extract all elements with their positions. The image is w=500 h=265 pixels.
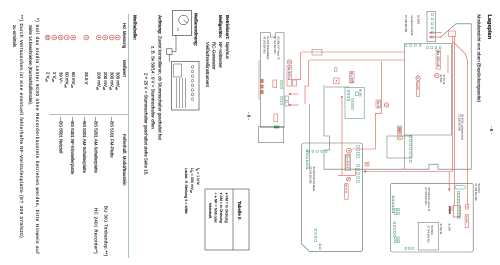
meas circle 2 + designator — [416, 76, 420, 80]
pin rows inside B5 — [281, 81, 283, 83]
svg-text:RC-Generator: RC-Generator — [212, 42, 217, 70]
red box mid small — [334, 78, 339, 84]
svg-text:Sv 9: Sv 9 — [376, 101, 380, 108]
tiny mark — [334, 68, 337, 71]
svg-text:ET 308 310 095: ET 308 310 095 — [474, 184, 477, 202]
svg-text:zu ermitteln.: zu ermitteln. — [12, 25, 17, 48]
svg-text:Bu 504: Bu 504 — [448, 224, 451, 232]
red cluster B3 mid: circle + boxed designator — [347, 148, 352, 153]
svg-text:1: 1 — [435, 75, 439, 77]
svg-text:2 Veff: 2 Veff — [51, 72, 57, 82]
chassis outline — [324, 24, 471, 169]
red designator above B5 — [287, 66, 292, 86]
inner block BS 5503 — [418, 223, 438, 251]
svg-text:Bu 301: Bu 301 — [359, 89, 362, 97]
svg-text:10: 10 — [46, 36, 50, 40]
pin rows B3 bottom — [306, 150, 308, 152]
red text marks below B5 — [261, 79, 264, 83]
svg-text:Achtung:: Achtung: — [158, 15, 163, 35]
svg-text:—BS 5101 FM-Platte: —BS 5101 FM-Platte — [109, 117, 114, 158]
svg-text:**) Durch Vertauschen ist eine: **) Durch Vertauschen ist eine eventuell… — [19, 15, 24, 238]
svg-text:Betriebsart:: Betriebsart: — [225, 15, 230, 40]
black link lines — [309, 104, 311, 170]
svg-text:Hd. Messung: Hd. Messung — [122, 23, 127, 49]
cable — [172, 35, 176, 51]
svg-text:BS 5901: BS 5901 — [417, 15, 420, 25]
svg-text:2 + 25 V = Stummschalter gesch: 2 + 25 V = Stummschalter geschaltet sieh… — [144, 73, 149, 175]
connector left of pin row — [455, 186, 466, 190]
svg-text:1: 1 — [116, 37, 120, 39]
meas circle 9 — [287, 60, 291, 64]
svg-text:Meßwert: Meßwert — [122, 60, 127, 78]
red designator at W3 jog — [376, 100, 381, 108]
table rows: circles and values — [115, 35, 120, 40]
red designator top-left — [436, 50, 441, 69]
pins row above inner board — [410, 136, 412, 138]
svg-text:Sv 504-11: Sv 504-11 — [439, 224, 442, 235]
svg-text:2: 2 — [416, 77, 420, 79]
wire B3 inner corner — [338, 168, 356, 175]
svg-text:*) Soll das studio center 5030: *) Soll das studio center 5030 ohne Reco… — [35, 18, 40, 254]
svg-text:39 V~: 39 V~ — [59, 72, 64, 84]
pin column B3 left — [325, 151, 327, 153]
svg-text:200 mVeff: 200 mVeff — [96, 72, 102, 90]
svg-text:Seite 14 beschrieben (Kurzschl: Seite 14 beschrieben (Kurzschlußbrücke). — [28, 25, 33, 105]
board BS 5461 NF-Endstufe (top right) — [391, 183, 474, 252]
svg-text:—BS 5301 NF-Einstellerplatte: —BS 5301 NF-Einstellerplatte — [70, 117, 75, 175]
red designators in B5 — [273, 80, 277, 88]
svg-text:Sv 50/8: Sv 50/8 — [416, 82, 418, 90]
svg-text:Lautst. ≙ Stellung 4 = Mitte: Lautst. ≙ Stellung 4 = Mitte — [184, 168, 188, 214]
svg-text:26.5 V: 26.5 V — [84, 72, 89, 85]
svg-text:—BS 5201 AM-Schalterplatte: —BS 5201 AM-Schalterplatte — [82, 117, 87, 173]
pin row B1 top — [457, 192, 460, 194]
wire spur into B1 — [448, 172, 450, 190]
svg-text:Sv 50/14: Sv 50/14 — [345, 156, 349, 168]
svg-text:9: 9 — [52, 37, 56, 39]
svg-text:Lautsprecherschalt.: Lautsprecherschalt. — [410, 15, 413, 36]
wire 2 vertical left — [305, 60, 405, 104]
svg-text:3: 3 — [103, 37, 107, 39]
wire 3 middle — [353, 61, 382, 149]
svg-text:BU 301 Tonbandsp.**): BU 301 Tonbandsp.**) — [104, 206, 109, 257]
wire 1 vertical left — [292, 52, 405, 80]
svg-text:2 Veff: 2 Veff — [45, 72, 51, 82]
svg-text:Meßtabelle:: Meßtabelle: — [133, 15, 138, 41]
board small connector (bottom center) — [259, 127, 284, 143]
board BS 5201 AM-Schalterplatte (bottom right) — [302, 143, 363, 252]
svg-text:5: 5 — [84, 37, 88, 39]
red square dot above B3 — [365, 162, 369, 166]
wire diagonal to red dot B1 — [453, 42, 467, 205]
svg-text:- 9 -: - 9 - — [247, 112, 252, 120]
svg-text:Bu 305: Bu 305 — [349, 72, 353, 83]
svg-text:Tabelle II: Tabelle II — [237, 201, 242, 219]
inner sub-board (cassette section) — [405, 44, 452, 136]
svg-text:6: 6 — [71, 37, 75, 39]
svg-text:HC 2401 Recorder*): HC 2401 Recorder*) — [93, 208, 98, 254]
connector base bar — [449, 206, 451, 214]
svg-text:5: 5 — [347, 150, 351, 152]
svg-text:● AM = in Ordnung: ● AM = in Ordnung — [219, 193, 223, 223]
connector strip BS 5901 — [427, 11, 435, 42]
pin rows B3 top edge — [357, 146, 360, 148]
red box around pins — [453, 206, 460, 217]
inner small board — [387, 136, 412, 158]
svg-text:AT 342 834 900: AT 342 834 900 — [263, 37, 266, 54]
svg-text:tape/aux: tape/aux — [225, 42, 230, 60]
device front panel — [172, 61, 199, 110]
svg-text:ET 342 834 900: ET 342 834 900 — [273, 37, 276, 55]
svg-text:fE = 1 kHz: fE = 1 kHz — [195, 168, 200, 185]
svg-text:NF-Voltmeter: NF-Voltmeter — [218, 42, 223, 68]
svg-text:● FM = in Ordnung: ● FM = in Ordnung — [225, 193, 229, 223]
svg-text:7: 7 — [65, 37, 69, 39]
svg-text:300 mVeff: 300 mVeff — [115, 72, 121, 90]
red designator B1 top — [465, 215, 468, 228]
pin column right of connector — [439, 47, 441, 49]
arrows above B5 — [291, 93, 299, 95]
sub-board pin column — [419, 45, 421, 47]
svg-text:- 8 -: - 8 - — [489, 126, 494, 134]
svg-text:Meßanordnung:: Meßanordnung: — [194, 13, 199, 47]
line below B5 — [258, 60, 260, 100]
wire pair B down to B3 — [366, 36, 453, 172]
meas circle 3 — [384, 103, 388, 107]
small box near wire1 — [312, 50, 322, 56]
svg-text:fehlerhaft.: fehlerhaft. — [208, 203, 212, 219]
Tabelle II legend box — [205, 189, 249, 250]
svg-text:4: 4 — [97, 37, 101, 39]
svg-text:3: 3 — [384, 104, 388, 106]
svg-text:Vielfachmeßinstrument: Vielfachmeßinstrument — [205, 42, 210, 88]
svg-text:Bu 30-19: Bu 30-19 — [345, 184, 347, 194]
board BS 5961 NF-Vorstufenplatte (bottom left) — [261, 33, 285, 128]
svg-text:UE = 300 mVeff: UE = 300 mVeff — [189, 168, 194, 193]
red designator mid — [350, 72, 355, 83]
meas circle 1 — [435, 73, 439, 77]
red square with dot — [466, 205, 469, 209]
svg-text:ET 349 350 913: ET 349 350 913 — [427, 226, 430, 244]
svg-text:ET 345 304 903: ET 345 304 903 — [424, 188, 427, 206]
svg-text:Sv 5041: Sv 5041 — [465, 215, 467, 223]
red cluster B3 right: circle + designator — [347, 177, 351, 181]
red circle marker — [397, 135, 402, 140]
svg-text:Lageplan: Lageplan — [486, 15, 492, 40]
red elbow at connector — [448, 206, 452, 210]
pin rows B1 bottom — [392, 196, 394, 198]
green connector box Bu 301 — [345, 87, 364, 118]
svg-text:9: 9 — [287, 61, 291, 63]
small red designator above B5 — [293, 80, 297, 86]
component marks inside B5 — [285, 96, 289, 101]
svg-text:○ ● NF = fehlt oder: ○ ● NF = fehlt oder — [214, 193, 218, 224]
svg-text:ET 343 362 095: ET 343 362 095 — [309, 167, 312, 185]
svg-text:300 mVeff: 300 mVeff — [109, 72, 115, 90]
svg-text:60 mVeff: 60 mVeff — [64, 72, 70, 88]
svg-text:Sv 50/14: Sv 50/14 — [287, 66, 291, 79]
wire pair A to B1 — [453, 36, 455, 206]
wire mid-low horizontal — [341, 97, 343, 175]
divider line continuation — [404, 135, 406, 169]
svg-text:Zuerst kontrollieren, ob Stumm: Zuerst kontrollieren, ob Stummschalter g… — [158, 36, 163, 141]
svg-text:200 mVeff: 200 mVeff — [102, 72, 108, 90]
svg-text:—BS 5501 Netzteil: —BS 5501 Netzteil — [59, 117, 64, 153]
red arrows into connector — [431, 32, 442, 34]
svg-text:z. B. Sv 50/14 : 0 V = Stummsc: z. B. Sv 50/14 : 0 V = Stummschalter off… — [151, 46, 156, 129]
svg-text:Modulansicht von oben (Bestück: Modulansicht von oben (Bestückungsseite) — [476, 15, 481, 103]
svg-text:Bu 101-15: Bu 101-15 — [436, 51, 440, 67]
svg-text:ET 308 358 095: ET 308 358 095 — [404, 15, 407, 33]
svg-text:—BS 5201 AM-Schalterplatte: —BS 5201 AM-Schalterplatte — [93, 117, 98, 173]
wire stub right of connector — [447, 55, 449, 73]
svg-text:2: 2 — [110, 37, 114, 39]
meter symbol — [173, 11, 192, 36]
red connector at pair start — [449, 31, 456, 37]
svg-text:60 mVeff: 60 mVeff — [70, 72, 76, 88]
svg-text:Fehlerhaft. Modul/Baustein: Fehlerhaft. Modul/Baustein — [122, 134, 127, 186]
svg-text:8: 8 — [59, 37, 63, 39]
svg-text:Meßgeräte:: Meßgeräte: — [218, 15, 223, 39]
black box with red designator — [397, 126, 402, 134]
svg-text:ET 305 050 905: ET 305 050 905 — [457, 114, 460, 132]
